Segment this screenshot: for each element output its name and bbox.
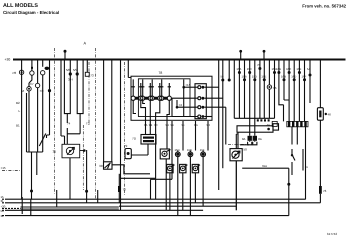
switch unit SW2 <box>160 149 169 159</box>
svg-text:16C: 16C <box>286 67 291 71</box>
wire pin 9D <box>166 121 168 149</box>
svg-text:5/9: 5/9 <box>73 68 78 72</box>
svg-text:+X: +X <box>179 103 183 107</box>
node A stub <box>64 52 66 60</box>
wire pin 9A <box>145 121 147 135</box>
flasher unit B3 <box>192 164 198 172</box>
terminal 73 <box>85 72 89 76</box>
wire B2 down <box>182 173 184 211</box>
wire right exit 1 <box>218 60 220 191</box>
connector 7/7 <box>27 87 31 91</box>
wire W5 <box>47 60 50 139</box>
wire fuse drop 4 <box>160 79 171 96</box>
svg-text:9E: 9E <box>171 123 175 127</box>
svg-text:50: 50 <box>244 148 248 152</box>
connector 15F <box>202 153 205 156</box>
svg-text:+15: +15 <box>185 83 190 87</box>
wire B1 down <box>169 173 171 211</box>
svg-text:8A: 8A <box>258 137 262 141</box>
connector dot C15 <box>303 78 306 81</box>
wire R14 <box>288 60 290 122</box>
fuse F2 <box>141 96 145 100</box>
wire inner link 2 <box>172 97 198 99</box>
wire pin 9G <box>195 121 197 151</box>
svg-text:5/8: 5/8 <box>66 68 71 72</box>
wire W16 <box>56 190 58 210</box>
svg-text:B1: B1 <box>16 124 20 128</box>
svg-text:16A: 16A <box>276 67 281 71</box>
svg-text:7/9: 7/9 <box>39 89 44 93</box>
wire fuse drop 2 <box>141 79 152 96</box>
connector 5/9 <box>76 72 79 75</box>
wire R4 <box>238 60 240 119</box>
connector dot C1 <box>221 79 224 82</box>
svg-text:16B: 16B <box>281 74 286 78</box>
connector P4 <box>198 115 201 118</box>
wire right exit 3 <box>225 107 227 144</box>
connector dot C12 <box>288 71 291 74</box>
wire SW2 down <box>165 159 167 210</box>
bus 31B rail <box>7 215 289 217</box>
fuse F3 <box>150 96 154 100</box>
svg-text:74: 74 <box>67 122 71 126</box>
wire fuse out 3 <box>156 100 160 121</box>
wire R3 <box>233 60 235 119</box>
junction dot J1 <box>30 190 33 193</box>
svg-text:9F: 9F <box>182 123 186 127</box>
wire relay feed <box>236 132 238 148</box>
wire pin 9C <box>155 121 157 199</box>
connector 5/8 <box>69 72 72 75</box>
wire strip leg 3 <box>302 149 304 171</box>
bus stub V1 <box>21 197 23 214</box>
wire R17 <box>304 60 306 122</box>
junction dot J3 <box>287 183 290 186</box>
connector 6/9 <box>41 71 45 75</box>
wire R6 <box>249 60 251 136</box>
switch contact S3 <box>35 83 39 87</box>
svg-text:31A: 31A <box>262 164 267 168</box>
wire R2 <box>228 60 230 81</box>
svg-text:7/6: 7/6 <box>273 86 277 90</box>
wire fuse out 2 <box>149 100 151 121</box>
wire strip leg 1 <box>291 127 293 145</box>
connector P2 <box>198 97 201 100</box>
connector dot C9 <box>273 71 276 74</box>
wire R7 <box>254 60 256 136</box>
wire 76 to bus <box>319 194 321 203</box>
svg-text:7/7: 7/7 <box>30 82 35 86</box>
svg-text:15E: 15E <box>261 74 266 78</box>
svg-text:9G: 9G <box>194 123 198 127</box>
wire fuse drop 3 <box>151 79 162 96</box>
wire strip leg 4 to bus <box>305 127 307 199</box>
svg-text:16F: 16F <box>302 74 307 78</box>
flasher unit B2 <box>180 164 186 172</box>
fuse F1 <box>131 96 135 100</box>
inner partition box <box>195 84 206 119</box>
wire right exit 2 <box>222 60 224 169</box>
lamp 46 <box>317 108 323 121</box>
wire W3 <box>37 60 39 153</box>
svg-text:Circuit Diagram - Electrical: Circuit Diagram - Electrical <box>3 10 59 15</box>
wire R8 <box>259 60 261 119</box>
switch S1 blade <box>39 134 46 147</box>
switch S4 <box>292 149 295 175</box>
fuse F76L <box>118 186 121 192</box>
wire fuse link <box>133 100 145 113</box>
wire fuse out 4 <box>167 100 169 121</box>
wire W13 <box>120 60 122 211</box>
wire U2 left <box>77 60 83 114</box>
connector dot C11 <box>283 78 286 81</box>
flasher unit B1 <box>167 164 173 172</box>
svg-text:76: 76 <box>323 189 327 193</box>
svg-text:30: 30 <box>99 164 103 168</box>
terminal 4A <box>272 121 277 126</box>
svg-text:76: 76 <box>123 188 127 192</box>
bus X rail <box>119 205 236 207</box>
wire fuse76L drop <box>118 174 120 186</box>
connector strip X1 <box>287 121 308 126</box>
connector 7/8 <box>19 70 23 74</box>
connector 7/9 <box>48 89 51 92</box>
wire inner link 1 <box>184 86 198 88</box>
svg-text:9D: 9D <box>166 123 170 127</box>
unit 16 box <box>237 126 273 132</box>
connector dot C8 <box>263 78 266 81</box>
wire W18 <box>97 190 99 203</box>
svg-text:9C: 9C <box>154 123 158 127</box>
wire feed from bus <box>128 60 131 78</box>
wire R16 <box>298 60 300 122</box>
wire R11 <box>274 60 276 119</box>
svg-text:54: 54 <box>307 67 311 71</box>
svg-text:15F: 15F <box>200 148 205 152</box>
battery cable +30 thick <box>21 207 119 210</box>
svg-text:73: 73 <box>90 74 94 78</box>
wire R15 <box>293 60 295 122</box>
wire 15F down <box>202 151 204 207</box>
node stub right 2 <box>263 52 265 60</box>
connector dot C10 <box>277 71 280 74</box>
wire fuse76L to bus <box>118 192 120 203</box>
wire R9 <box>263 60 265 119</box>
svg-text:3/H: 3/H <box>68 78 73 82</box>
wire mid join <box>120 177 156 179</box>
connector dot C16 <box>309 74 312 77</box>
relay 30 box <box>104 162 113 169</box>
wire W4 <box>42 60 44 153</box>
connector 15E <box>189 153 192 156</box>
boundary line D4 <box>82 125 84 190</box>
connector dot C13 <box>293 78 296 81</box>
wire W17 <box>86 150 88 203</box>
switch contact S2 <box>30 71 34 75</box>
wire R5 <box>244 60 246 119</box>
wire strip leg 2 <box>296 127 298 145</box>
wire R19 comb rail <box>234 117 274 119</box>
connector dot C7 <box>258 67 261 70</box>
wire 46 down <box>319 120 321 186</box>
svg-text:b17742: b17742 <box>327 232 337 236</box>
wire 15D down <box>177 151 179 216</box>
svg-text:8A: 8A <box>242 137 246 141</box>
connector dot C5 <box>248 71 251 74</box>
svg-text:15E: 15E <box>187 148 192 152</box>
wire W15a U to relay <box>67 114 80 145</box>
connector dot C3 <box>238 71 241 74</box>
svg-text:79: 79 <box>124 144 128 148</box>
fuse F5 <box>248 136 252 141</box>
wire W2 <box>27 60 32 153</box>
wire pin 9B <box>149 121 151 135</box>
svg-text:16D: 16D <box>291 74 296 78</box>
wire pin 9H <box>207 121 209 151</box>
svg-text:15D: 15D <box>175 148 180 152</box>
fusebox 78 outline <box>131 76 212 120</box>
fuse 76 <box>319 186 322 194</box>
wire pin 9F <box>182 121 184 151</box>
unit 16 tab <box>273 124 279 130</box>
wire fuse joint left <box>240 144 249 146</box>
wire W10 <box>86 60 88 73</box>
connector P3 <box>198 106 201 109</box>
svg-text:16E: 16E <box>296 67 301 71</box>
wire relay out right <box>242 168 289 215</box>
svg-text:15C: 15C <box>247 67 252 71</box>
svg-text:75: 75 <box>257 63 261 67</box>
boundary line D5 <box>124 62 126 195</box>
bus stub V2 <box>30 199 32 215</box>
svg-text:15D: 15D <box>252 74 257 78</box>
bus 54 rail <box>7 209 203 211</box>
wire 79 to heater <box>131 144 148 155</box>
wire pin 9E <box>171 121 173 179</box>
wire W9 <box>61 60 65 145</box>
wire W14 ignition comb <box>27 152 43 199</box>
wire inner link 3 <box>177 100 198 107</box>
wire 15E down <box>189 151 191 216</box>
heater resistor 7D box <box>141 135 156 145</box>
connector P1 <box>198 86 201 89</box>
svg-text:ALL MODELS: ALL MODELS <box>3 3 38 9</box>
svg-text:15B: 15B <box>242 74 247 78</box>
svg-text:46: 46 <box>328 113 332 117</box>
wire W11 <box>103 60 105 162</box>
boundary line D3 <box>88 62 90 125</box>
svg-text:From veh. no. 567342: From veh. no. 567342 <box>302 4 346 9</box>
unit 16 pins <box>257 119 259 121</box>
wire R18 box corner feed <box>309 60 311 104</box>
svg-text:4A: 4A <box>267 123 271 127</box>
bus 15 rail <box>7 198 306 200</box>
wire 30 out right <box>112 165 150 174</box>
connector dot C2 <box>228 79 231 82</box>
svg-text:7/8: 7/8 <box>12 71 17 75</box>
connector 79 <box>125 149 131 159</box>
connector dot C4 <box>243 78 246 81</box>
connector 15D <box>176 153 179 156</box>
boundary line D2 <box>95 48 97 199</box>
svg-text:9B: 9B <box>149 123 153 127</box>
wire R12 <box>279 60 284 122</box>
fuse F6 <box>253 136 257 141</box>
wire W12 <box>111 60 113 162</box>
wire relay to ground bus <box>235 161 237 211</box>
node +X inner <box>176 106 179 109</box>
fuse F4 <box>160 96 164 100</box>
boundary line D1 <box>54 48 56 195</box>
boundary line D6 <box>228 143 247 145</box>
fusebox inner compartment <box>138 79 190 117</box>
junction dot J2 <box>85 190 88 193</box>
svg-text:+15: +15 <box>1 166 6 170</box>
wire main +30 bus <box>13 59 346 61</box>
wire inner feed <box>183 79 185 116</box>
svg-text:78: 78 <box>159 71 163 75</box>
connector dot C14 <box>298 71 301 74</box>
connector dot C6 <box>253 78 256 81</box>
wire B3 down <box>194 173 196 203</box>
boundary line D7 <box>2 170 20 172</box>
wire R20 lamp 46 feed <box>319 60 321 108</box>
wire R10 <box>268 60 270 119</box>
svg-text:54: 54 <box>221 74 225 78</box>
wire R13 <box>284 60 289 101</box>
svg-text:9H: 9H <box>207 123 211 127</box>
unit 16 inner dot <box>267 128 270 131</box>
svg-text:15A: 15A <box>236 67 241 71</box>
wire fuse drop 1 <box>132 79 143 96</box>
bus 31 rail <box>7 202 320 204</box>
svg-text:9A: 9A <box>144 123 148 127</box>
wire fuse out 1 <box>141 100 146 121</box>
relay K1 box <box>62 144 80 158</box>
svg-text:+30: +30 <box>5 58 11 62</box>
relay 50 box <box>230 149 242 161</box>
node stub right 1 <box>240 52 242 60</box>
wire W15 <box>69 158 71 199</box>
svg-text:B2: B2 <box>16 101 20 105</box>
wire U1 left <box>64 60 70 114</box>
connector 7/6 <box>267 85 271 89</box>
node +15 inner <box>182 86 185 89</box>
wire under joins <box>151 179 173 199</box>
wire inner link 4 <box>172 98 198 116</box>
wire W1 <box>21 60 23 200</box>
